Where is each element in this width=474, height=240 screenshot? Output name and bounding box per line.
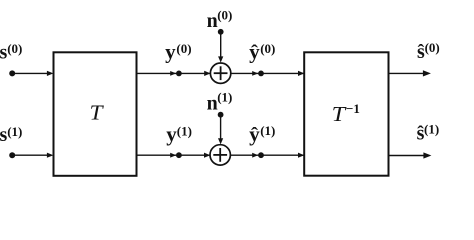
wire yhat(1) from adder 2 to box T inverse (230, 154, 304, 156)
adder 1 (summing junction, plus circle) (210, 63, 230, 83)
box T inverse (304, 52, 388, 175)
arrowhead on wire y(1) (170, 153, 176, 158)
svg-text:(1): (1) (217, 90, 232, 105)
node dot on wire y(1) (176, 152, 182, 158)
label y^(1) (166, 123, 192, 146)
wire y(0) from box T to adder 1 (137, 72, 211, 74)
svg-text:T: T (332, 102, 347, 126)
arrowhead shat(0) output (423, 70, 431, 76)
label shat^(1) (417, 122, 440, 145)
arrowhead on wire y(0) (170, 71, 176, 76)
node dot on wire yhat(1) (258, 152, 264, 158)
label n^(1) (207, 90, 233, 115)
wire s(0) input to box T (12, 72, 48, 74)
arrowhead s(1) into box T (47, 153, 54, 158)
label s^(1) (0, 124, 22, 146)
svg-text:n: n (207, 93, 218, 115)
arrowhead yhat(1) into box T inverse (298, 153, 304, 158)
label yhat^(1) (249, 123, 275, 146)
label yhat^(0) (249, 41, 275, 64)
node s(0) input dot (9, 70, 15, 76)
svg-text:(0): (0) (260, 41, 275, 56)
svg-text:(1): (1) (7, 124, 22, 139)
wire n(0) down to adder 1 (220, 32, 222, 58)
node dot on wire yhat(0) (258, 71, 264, 77)
adder 2 (summing junction, plus circle) (210, 145, 230, 165)
node s(1) input dot (9, 152, 15, 158)
svg-text:y: y (165, 42, 176, 64)
svg-text:(1): (1) (260, 123, 275, 138)
wire s(1) input to box T (12, 154, 48, 156)
label T^-1 (332, 101, 360, 126)
wire yhat(0) from adder 1 to box T inverse (231, 72, 304, 74)
label y^(0) (165, 41, 191, 64)
svg-text:n: n (207, 10, 218, 32)
svg-text:−1: −1 (346, 101, 360, 116)
arrowhead y(1) into adder 2 (204, 153, 210, 158)
svg-text:(1): (1) (177, 123, 192, 138)
wire n(1) down to adder 2 (220, 115, 222, 140)
arrowhead yhat(0) into box T inverse (298, 71, 304, 76)
label n^(0) (207, 8, 233, 33)
wire shat(0) output (389, 72, 425, 74)
arrowhead s(0) into box T (47, 71, 54, 76)
node n(1) source dot (218, 112, 224, 118)
svg-text:y: y (166, 124, 177, 146)
svg-text:(0): (0) (217, 8, 232, 23)
arrowhead on wire yhat(1) (252, 153, 258, 158)
svg-text:T: T (90, 100, 104, 124)
node n(0) source dot (218, 29, 224, 35)
arrowhead shat(1) output (423, 152, 431, 158)
box T (transform) (54, 52, 137, 176)
svg-text:(0): (0) (7, 41, 22, 56)
node dot on wire y(0) (176, 71, 182, 77)
svg-text:ŷ: ŷ (249, 42, 260, 64)
label shat^(0) (417, 40, 440, 63)
arrowhead y(0) into adder 1 (204, 71, 210, 76)
wire shat(1) output (389, 155, 426, 157)
label s^(0) (0, 41, 22, 63)
arrowhead on wire yhat(0) (252, 71, 258, 76)
wire y(1) from box T to adder 2 (137, 154, 211, 156)
svg-text:(0): (0) (425, 40, 440, 55)
arrowhead n(1) into adder 2 (218, 138, 223, 144)
svg-text:(1): (1) (424, 122, 439, 137)
svg-text:(0): (0) (176, 41, 191, 56)
svg-text:ŷ: ŷ (249, 124, 260, 146)
arrowhead n(0) into adder 1 (218, 56, 223, 62)
